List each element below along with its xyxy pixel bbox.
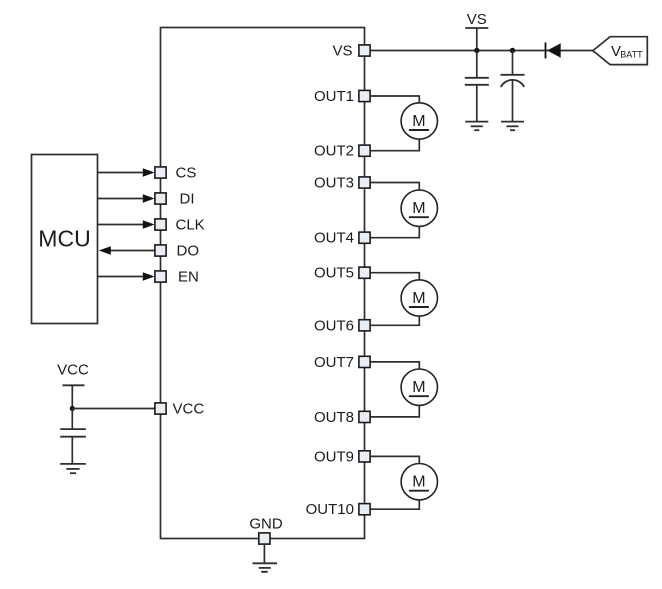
- svg-text:MCU: MCU: [38, 226, 90, 252]
- svg-text:OUT5: OUT5: [314, 265, 354, 282]
- pin DO: [155, 243, 199, 260]
- pin OUT7: [314, 354, 370, 371]
- wire OUT2 to motor M1: [371, 139, 420, 151]
- capacitor C1: [465, 51, 489, 122]
- MCU block: [32, 155, 98, 324]
- svg-text:OUT7: OUT7: [314, 354, 354, 371]
- svg-text:OUT10: OUT10: [306, 501, 354, 518]
- wire GND pin to ground: [263, 545, 265, 564]
- pin OUT8: [314, 409, 370, 426]
- wire OUT4 to motor M2: [371, 226, 420, 237]
- capacitor C3: [60, 409, 86, 464]
- junction VCC node: [70, 406, 75, 411]
- motor M3: [401, 280, 437, 316]
- svg-text:CLK: CLK: [176, 217, 205, 234]
- svg-text:VS: VS: [332, 43, 352, 60]
- wire OUT3 to motor M2: [371, 183, 420, 191]
- motor M2: [401, 190, 437, 226]
- diode D1: [546, 43, 561, 59]
- wire OUT5 to motor M3: [371, 273, 420, 280]
- wire OUT10 to motor M5: [371, 500, 420, 509]
- svg-text:M: M: [412, 379, 425, 396]
- pin CLK: [155, 217, 205, 234]
- svg-text:OUT3: OUT3: [314, 175, 354, 192]
- VBATT terminal flag: [593, 37, 647, 65]
- pin VCC: [155, 401, 204, 418]
- svg-text:M: M: [412, 113, 425, 130]
- pin EN: [155, 269, 199, 286]
- svg-text:OUT4: OUT4: [314, 230, 354, 247]
- motor M5: [401, 464, 437, 500]
- svg-text:M: M: [412, 290, 425, 307]
- wire MCU to CLK with arrow: [98, 220, 155, 229]
- pin OUT5: [314, 265, 370, 282]
- pin OUT2: [314, 143, 370, 160]
- pin OUT6: [314, 317, 370, 334]
- wire VCC node to VCC pin: [72, 408, 154, 410]
- wire OUT9 to motor M5: [371, 456, 420, 463]
- wire DO to MCU with arrow: [99, 246, 155, 255]
- wire OUT6 to motor M3: [371, 316, 420, 325]
- svg-text:OUT1: OUT1: [314, 88, 354, 105]
- motor M1: [401, 103, 437, 139]
- svg-text:OUT2: OUT2: [314, 143, 354, 160]
- svg-text:M: M: [412, 200, 425, 217]
- VS supply symbol: [465, 11, 488, 51]
- svg-text:VCC: VCC: [57, 362, 89, 379]
- pin VS: [332, 43, 370, 60]
- capacitor C2 polarized: [501, 51, 525, 122]
- svg-text:GND: GND: [249, 516, 283, 533]
- svg-text:CS: CS: [176, 165, 197, 182]
- svg-text:VCC: VCC: [173, 401, 205, 418]
- wire MCU to EN with arrow: [98, 272, 155, 281]
- wire MCU to CS with arrow: [98, 168, 155, 177]
- IC U1 body: [161, 28, 365, 539]
- pin OUT1: [314, 88, 370, 105]
- pin OUT10: [306, 501, 370, 518]
- motor M4: [401, 369, 437, 405]
- junction node VS-C1: [474, 48, 479, 53]
- wire OUT1 to motor M1: [371, 96, 420, 103]
- svg-text:OUT8: OUT8: [314, 409, 354, 426]
- svg-text:VS: VS: [467, 11, 487, 28]
- svg-text:OUT6: OUT6: [314, 317, 354, 334]
- pin GND: [249, 516, 283, 545]
- ground below C3: [60, 464, 86, 473]
- pin OUT9: [314, 448, 370, 465]
- svg-text:DO: DO: [177, 243, 200, 260]
- ground below GND: [253, 563, 278, 572]
- ground below C1: [465, 122, 488, 131]
- ground below C2: [501, 122, 524, 131]
- wire MCU to DI with arrow: [98, 194, 155, 203]
- pin OUT3: [314, 175, 370, 192]
- svg-text:M: M: [412, 474, 425, 491]
- svg-text:DI: DI: [180, 191, 195, 208]
- wire OUT8 to motor M4: [371, 405, 420, 417]
- svg-text:BATT: BATT: [620, 49, 643, 59]
- junction node VS-C2: [510, 48, 515, 53]
- wire VS pin to VBATT: [371, 50, 593, 52]
- wire OUT7 to motor M4: [371, 362, 420, 369]
- pin OUT4: [314, 230, 370, 247]
- pin CS: [155, 165, 196, 182]
- VCC supply symbol: [57, 362, 89, 409]
- svg-text:EN: EN: [178, 269, 199, 286]
- svg-text:OUT9: OUT9: [314, 448, 354, 465]
- pin DI: [155, 191, 195, 208]
